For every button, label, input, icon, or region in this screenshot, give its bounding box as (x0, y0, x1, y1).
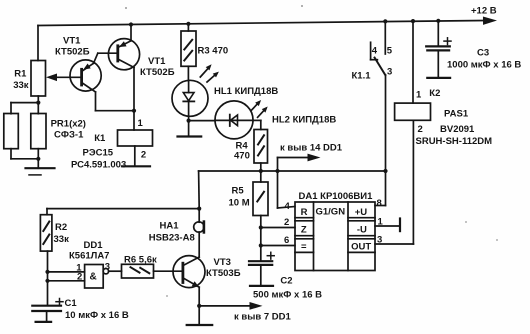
svg-text:VT1: VT1 (63, 36, 81, 47)
svg-text:5: 5 (387, 46, 393, 57)
svg-text:1000 мкФ х 16 В: 1000 мкФ х 16 В (447, 60, 521, 71)
svg-text:R2: R2 (55, 222, 67, 233)
svg-text:C2: C2 (280, 276, 292, 287)
svg-text:500 мкФ х 16 В: 500 мкФ х 16 В (253, 289, 322, 300)
svg-text:DA1 КР1006ВИ1: DA1 КР1006ВИ1 (299, 191, 374, 202)
svg-text:1: 1 (378, 217, 384, 228)
svg-text:КТ502Б: КТ502Б (55, 46, 90, 57)
svg-text:HSB23-A8: HSB23-A8 (149, 232, 195, 243)
svg-text:R: R (301, 207, 308, 218)
svg-text:4: 4 (285, 201, 291, 212)
svg-text:к выв 7 DD1: к выв 7 DD1 (234, 312, 291, 323)
svg-text:G1/GN: G1/GN (316, 207, 346, 218)
svg-text:К1.1: К1.1 (352, 71, 372, 82)
svg-text:РЭС15: РЭС15 (83, 148, 114, 159)
svg-text:КТ502Б: КТ502Б (140, 67, 175, 78)
svg-text:8: 8 (377, 198, 382, 209)
svg-text:R6 5,6к: R6 5,6к (124, 254, 157, 265)
svg-text:R3 470: R3 470 (198, 45, 229, 56)
svg-text:470: 470 (234, 151, 250, 162)
svg-text:6: 6 (284, 235, 289, 246)
svg-text:DD1: DD1 (84, 240, 104, 251)
svg-text:BV2091: BV2091 (440, 124, 475, 135)
svg-text:C3: C3 (477, 48, 489, 59)
svg-text:=: = (301, 242, 307, 253)
svg-text:10 мкФ х 16 В: 10 мкФ х 16 В (65, 310, 129, 321)
svg-text:HL1 КИПД18В: HL1 КИПД18В (214, 86, 278, 97)
svg-text:К1: К1 (94, 133, 106, 144)
svg-text:2: 2 (284, 217, 289, 228)
svg-text:VT1: VT1 (148, 56, 166, 67)
svg-text:+12 В: +12 В (471, 5, 497, 16)
svg-text:R1: R1 (14, 69, 27, 80)
svg-text:33к: 33к (54, 234, 70, 245)
svg-text:к выв 14 DD1: к выв 14 DD1 (280, 143, 343, 154)
svg-text:1: 1 (138, 118, 144, 129)
svg-text:3: 3 (105, 262, 110, 273)
svg-text:HL2 КИПД18В: HL2 КИПД18В (272, 114, 336, 125)
svg-text:КТ503Б: КТ503Б (206, 268, 241, 279)
svg-text:Z: Z (301, 224, 307, 235)
svg-text:-U: -U (357, 224, 367, 235)
svg-text:&: & (90, 271, 97, 282)
svg-text:4: 4 (372, 46, 378, 57)
svg-text:3: 3 (377, 235, 382, 246)
svg-text:2: 2 (77, 272, 82, 283)
svg-text:РС4.591.003: РС4.591.003 (71, 159, 126, 170)
svg-text:2: 2 (418, 124, 423, 135)
svg-text:R5: R5 (232, 185, 245, 196)
svg-text:PAS1: PAS1 (444, 109, 469, 120)
svg-text:PR1(x2): PR1(x2) (51, 119, 86, 130)
svg-text:33к: 33к (13, 80, 29, 91)
svg-text:SRUH-SH-112DM: SRUH-SH-112DM (416, 136, 493, 147)
svg-text:VT3: VT3 (214, 257, 231, 268)
svg-text:НА1: НА1 (160, 220, 180, 231)
svg-text:3: 3 (387, 67, 392, 78)
svg-text:С1: С1 (65, 298, 78, 309)
svg-text:1: 1 (416, 90, 422, 101)
svg-text:+U: +U (355, 207, 368, 218)
svg-text:К561ЛА7: К561ЛА7 (69, 251, 109, 262)
svg-text:10 М: 10 М (229, 197, 250, 208)
svg-text:2: 2 (141, 150, 146, 161)
svg-text:OUT: OUT (351, 242, 371, 253)
svg-text:СФЗ-1: СФЗ-1 (54, 130, 84, 141)
svg-text:К2: К2 (429, 88, 440, 99)
